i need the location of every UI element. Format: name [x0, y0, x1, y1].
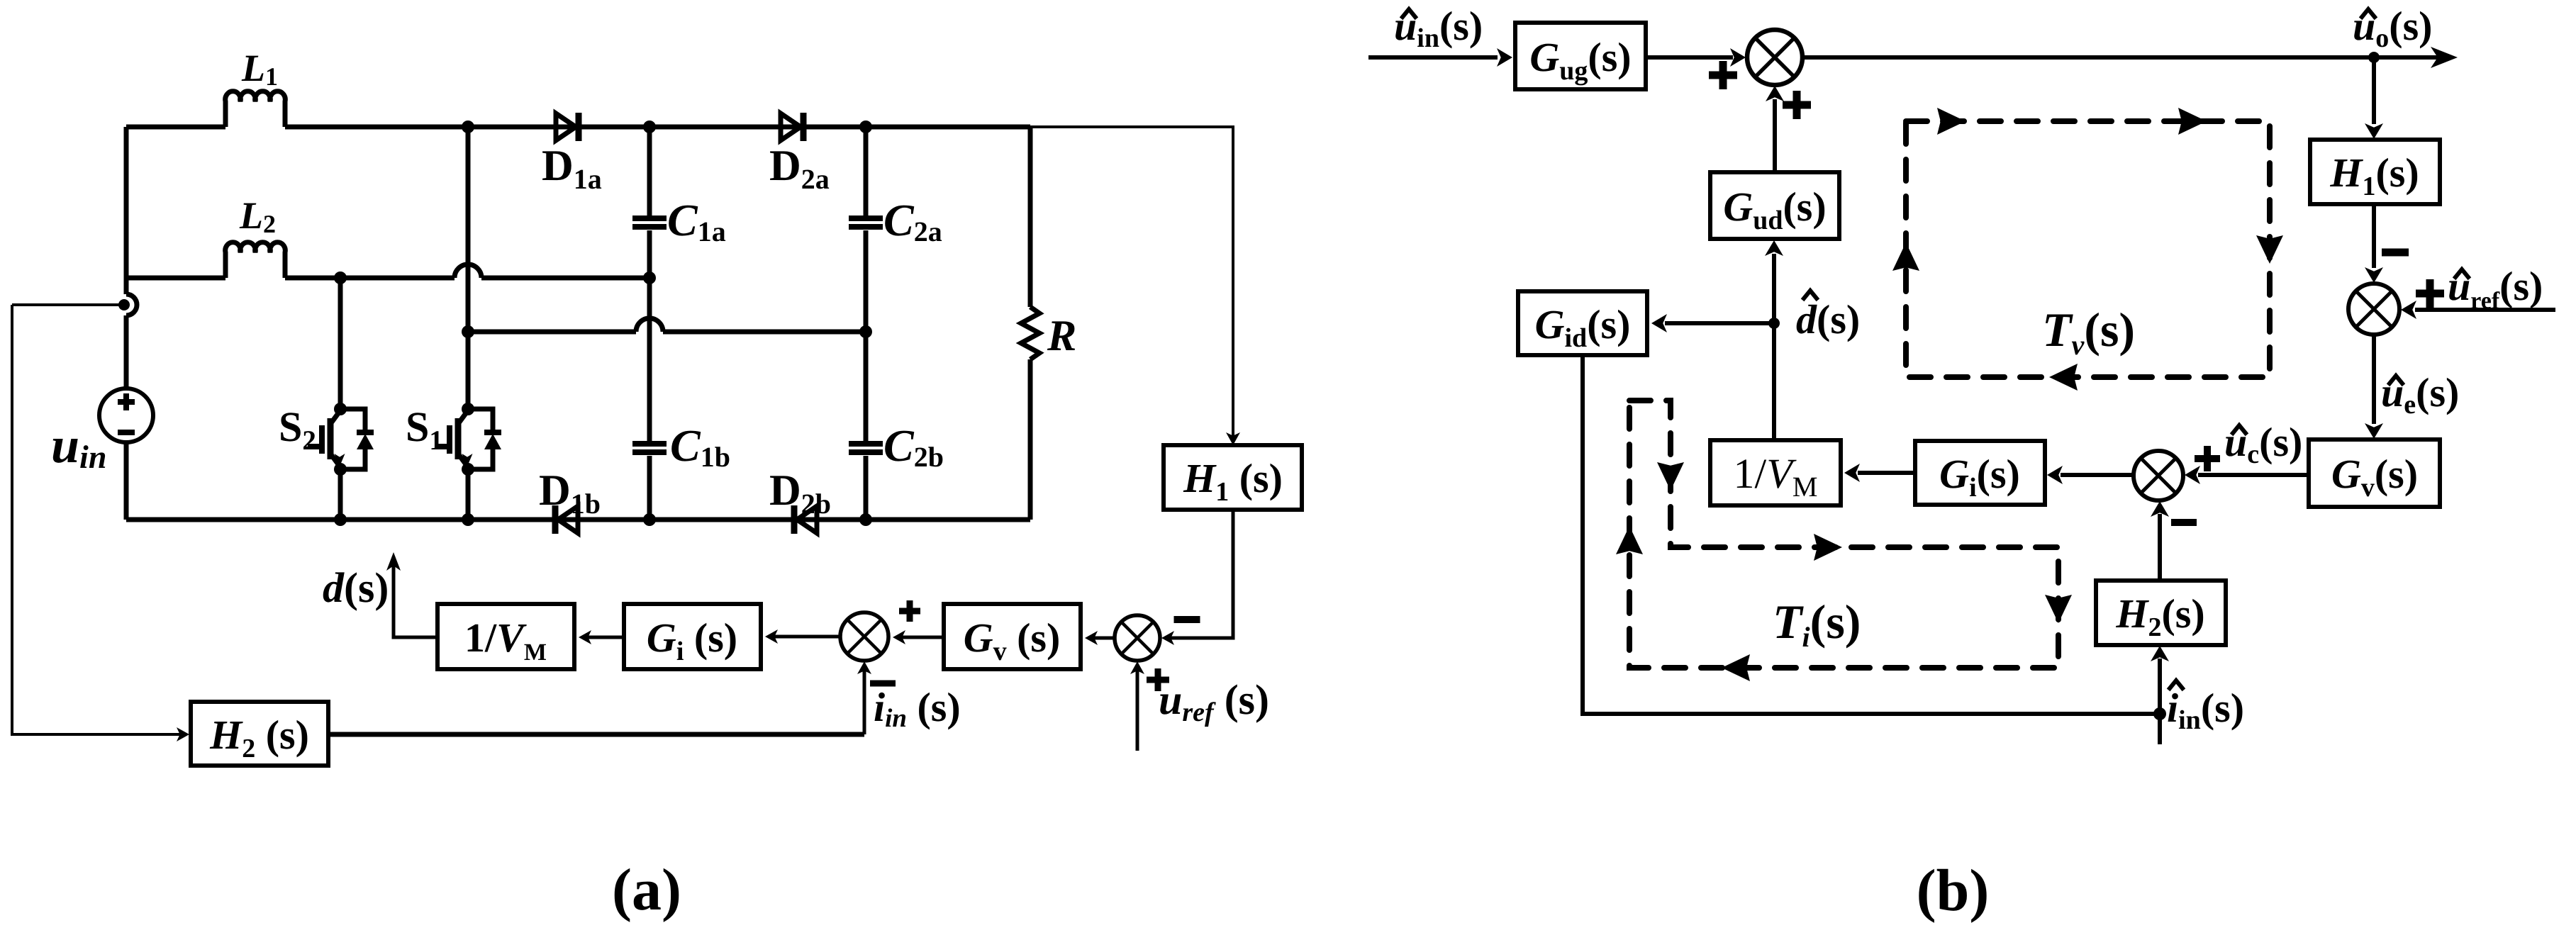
svg-text:uc(s): uc(s)	[2224, 419, 2302, 469]
svg-text:C1a: C1a	[667, 195, 726, 247]
diode D1b	[552, 505, 559, 534]
dashed loop Ti(s)	[1629, 401, 2058, 668]
block Gug(s)	[1515, 23, 1646, 89]
wire mid rail y468 with hop over C1 column	[468, 330, 866, 335]
svg-text:S2: S2	[279, 403, 316, 456]
node d(s) (b)	[1768, 318, 1780, 329]
minus sign H1 output (b)	[2382, 249, 2409, 257]
svg-text:L1: L1	[241, 47, 278, 91]
inductor L2	[225, 242, 286, 278]
diode D1a	[556, 113, 576, 140]
svg-text:uin: uin	[51, 417, 106, 475]
block 1/VM (b)	[1710, 440, 1841, 505]
dashed loop Tv(s)	[1906, 121, 2270, 377]
summer ref (b)	[2348, 284, 2399, 335]
wire H1 output to voltage summer	[1166, 510, 1233, 638]
capacitor C2b	[849, 441, 883, 447]
plus sign u_c	[2195, 446, 2220, 471]
svg-text:iin(s): iin(s)	[2167, 685, 2244, 735]
svg-text:ue(s): ue(s)	[2381, 369, 2459, 420]
wire d node to Gid	[1665, 321, 1774, 325]
minus sign H2 output	[2171, 519, 2197, 526]
node mid rail at C2	[859, 325, 872, 338]
node L2-C1 junction	[643, 271, 656, 284]
plus sign u_ref	[1147, 668, 1169, 691]
block H2(s) (a)	[191, 702, 328, 766]
summer (a) voltage	[1115, 615, 1160, 661]
wire current summer to Gi	[769, 635, 840, 639]
wire Gv to uc summer	[2198, 473, 2309, 477]
wire i_in stub down	[2158, 714, 2162, 744]
label i_in(s) hat (b)	[2170, 681, 2182, 688]
plus sign at current summer (a)	[899, 600, 920, 622]
label u_o(s) hat	[2362, 9, 2375, 17]
wire H1 to ref summer (b)	[2372, 204, 2376, 268]
wire u_ref input	[1136, 665, 1139, 751]
svg-text:Gv (s): Gv (s)	[964, 615, 1061, 666]
wire C2 column	[864, 127, 869, 216]
block Gid(s)	[1518, 291, 1647, 355]
wire u_ref input (b)	[2415, 308, 2555, 312]
wire feedback bottom run	[328, 732, 864, 737]
wire u_in input (b)	[1368, 55, 1498, 60]
block Gi(s) (b)	[1915, 441, 2045, 505]
node bottom rail at C1	[643, 513, 656, 526]
node S2 bottom rail junction	[334, 513, 347, 526]
svg-text:d(s): d(s)	[323, 564, 389, 611]
wire Gv to current summer	[897, 636, 944, 639]
node top rail at C1	[643, 121, 656, 133]
svg-text:D2b: D2b	[769, 466, 831, 520]
minus sign i_in	[870, 681, 896, 687]
svg-text:d(s): d(s)	[1796, 296, 1860, 342]
voltage source u_in	[99, 388, 153, 442]
label u_ref(s) hat	[2455, 269, 2468, 277]
wire voltage summer to Gv	[1089, 637, 1115, 640]
wire i_in feedback up into current summer	[863, 665, 866, 734]
transistor S1 (IGBT with freewheel diode)	[466, 127, 471, 409]
block Gud(s)	[1710, 172, 1839, 239]
block H2(s) (b)	[2096, 581, 2226, 645]
svg-text:D1b: D1b	[539, 466, 601, 520]
block H1(s) (b)	[2310, 140, 2440, 204]
summer current (b)	[2134, 451, 2183, 500]
wire summer to u_o node	[1802, 55, 2374, 60]
svg-text:L2: L2	[239, 194, 276, 238]
wire top rail	[126, 125, 225, 130]
svg-text:C2b: C2b	[883, 420, 944, 473]
label u_e(s) hat	[2390, 376, 2402, 383]
svg-text:Gi (s): Gi (s)	[647, 615, 737, 666]
plus sign left of output summer	[1709, 61, 1737, 89]
wire ref summer to Gv (b)	[2372, 335, 2376, 424]
wire i_in up to H2 (b)	[2158, 659, 2162, 714]
wire top rail to H1(s)	[1030, 127, 1233, 439]
wire d node up to Gud	[1772, 254, 1776, 323]
svg-text:uref(s): uref(s)	[2448, 263, 2543, 314]
wire 1/VM to d(s) arrow	[394, 556, 437, 637]
svg-text:uo(s): uo(s)	[2353, 3, 2432, 53]
transistor S2 (IGBT with freewheel diode)	[338, 278, 343, 409]
label u_in(s) hat (b)	[1403, 9, 1415, 17]
svg-text:Ti(s): Ti(s)	[1773, 595, 1861, 653]
wire Gi to 1/VM (b)	[1858, 471, 1915, 475]
svg-text:D2a: D2a	[769, 142, 830, 195]
wire H2 up to uc summer	[2158, 514, 2162, 581]
wire Gid down to i_in node	[1583, 355, 2156, 714]
svg-text:iin (s): iin (s)	[874, 684, 961, 733]
wire bottom rail	[126, 517, 1030, 522]
block Gi(s) (a)	[624, 604, 761, 669]
block Gv(s) (a)	[944, 604, 1081, 669]
node i_in (b)	[2153, 707, 2166, 720]
wire sense tap to left edge	[12, 303, 119, 306]
capacitor C1a	[632, 215, 667, 221]
block H1(s) (a)	[1164, 445, 1302, 510]
node bottom rail at C2	[859, 513, 872, 526]
svg-text:Gi(s): Gi(s)	[1939, 451, 2020, 503]
inductor L1	[225, 91, 286, 127]
svg-text:R: R	[1047, 312, 1076, 360]
label d(s) hat (b)	[1804, 291, 1817, 298]
block 1/VM (a)	[437, 604, 574, 669]
wire sense line to H2	[12, 305, 184, 734]
capacitor C1b	[632, 441, 667, 447]
resistor R	[1028, 127, 1033, 307]
wire L2 rail	[126, 276, 225, 281]
wire u_o arrow out	[2374, 55, 2439, 60]
summer (a) current	[840, 612, 888, 661]
svg-text:C1b: C1b	[670, 420, 730, 473]
svg-text:H1 (s): H1 (s)	[1183, 455, 1283, 507]
summer output (b)	[1747, 30, 1802, 85]
wire Gi to 1/VM	[583, 636, 624, 639]
svg-text:S1: S1	[406, 403, 443, 456]
node current sense tap	[118, 299, 130, 310]
wire Gug to output summer	[1646, 55, 1733, 60]
current sense hop on input column	[126, 294, 137, 315]
node top rail at C2	[859, 121, 872, 133]
svg-text:D1a: D1a	[542, 142, 602, 195]
diode D2b	[791, 505, 798, 534]
wire uc summer to Gi (b)	[2061, 473, 2134, 477]
minus sign at voltage summer (a)	[1174, 616, 1200, 623]
node S1 top rail junction	[462, 121, 474, 133]
label u_c(s) hat	[2233, 425, 2246, 433]
diode D2a	[781, 113, 801, 140]
svg-text:(a): (a)	[612, 857, 681, 923]
block Gv(s) (b)	[2309, 439, 2440, 507]
capacitor C2a	[849, 215, 883, 221]
svg-text:uin(s): uin(s)	[1394, 3, 1483, 53]
plus sign below output summer	[1783, 91, 1811, 119]
svg-text:(b): (b)	[1917, 858, 1990, 924]
svg-text:H2 (s): H2 (s)	[209, 712, 309, 763]
wire C1 column	[647, 127, 652, 216]
node u_o	[2368, 52, 2380, 63]
svg-text:C2a: C2a	[883, 195, 942, 247]
wire left vertical input column	[124, 127, 129, 294]
node L2-S2 junction	[334, 271, 347, 284]
svg-text:Tv(s): Tv(s)	[2042, 303, 2135, 361]
wire u_o down to H1 (b)	[2372, 57, 2376, 124]
plus sign u_ref (b)	[2416, 279, 2444, 308]
node mid rail at S1	[462, 325, 474, 338]
wire Gud up to output summer	[1773, 99, 1777, 172]
svg-text:Gv(s): Gv(s)	[2331, 451, 2418, 503]
svg-text:uref (s): uref (s)	[1159, 676, 1269, 727]
wire 1/VM up to d node	[1772, 323, 1776, 440]
node S1 bottom rail junction	[462, 513, 474, 526]
wire u_in to bottom rail	[124, 442, 129, 520]
